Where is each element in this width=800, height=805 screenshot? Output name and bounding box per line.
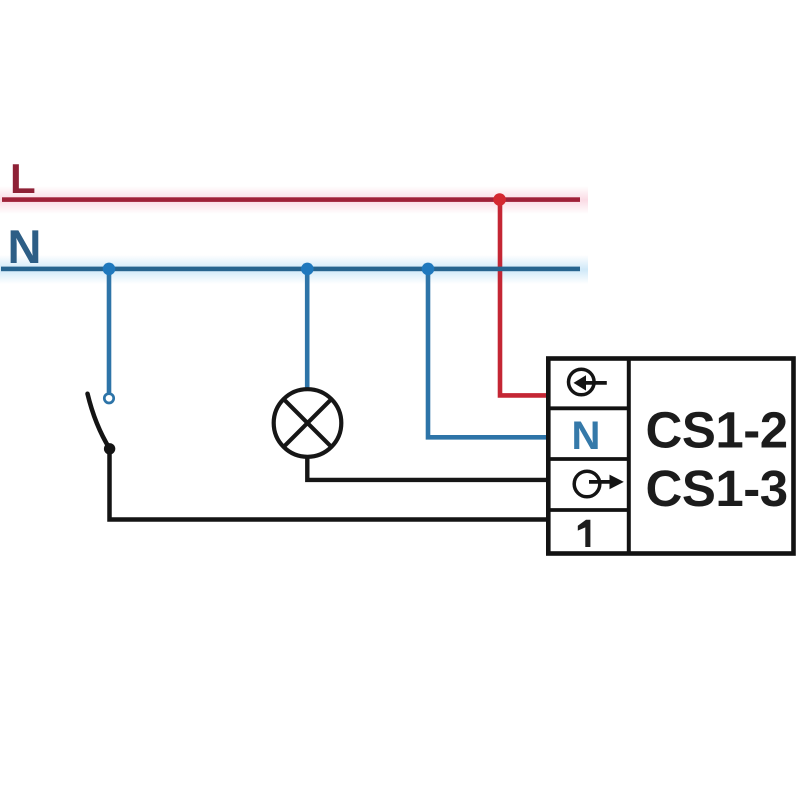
terminal icon: supply input (circle with left arrow) (569, 369, 607, 395)
halo around N bus (0, 255, 588, 284)
wire: blue elbow from N bus to terminal N (428, 269, 549, 437)
switch S pivot dot (104, 443, 115, 454)
svg-text:N: N (8, 220, 42, 273)
node: N junction at box drop (422, 263, 435, 276)
svg-text:L: L (10, 155, 36, 202)
switch S contact (open circle) (104, 394, 113, 403)
wire L bus (2, 197, 580, 202)
wire: switch to terminal 1 (110, 448, 550, 520)
node: N junction at switch drop (103, 263, 116, 276)
svg-text:N: N (572, 414, 601, 458)
wire: N bus to lamp (305, 269, 310, 388)
terminal icon: load output (circle with right arrow) (574, 471, 624, 497)
terminal cell divider 3 (547, 508, 629, 512)
svg-text:CS1-3: CS1-3 (646, 460, 788, 517)
relay module CS1-2 / CS1-3 body (548, 359, 793, 554)
terminal cell divider 2 (547, 457, 629, 461)
terminal label 1 (578, 520, 591, 547)
switch S lever (88, 394, 110, 449)
node: L junction at red drop (493, 193, 506, 206)
svg-text:CS1-2: CS1-2 (646, 402, 788, 459)
node: N junction at lamp drop (301, 263, 314, 276)
wire: lamp to terminal (output) (307, 456, 549, 480)
wire N bus (1, 267, 580, 272)
terminal column divider (627, 359, 631, 554)
lamp E (circle with cross) (274, 389, 342, 457)
terminal cell divider 1 (547, 406, 629, 410)
wire: N bus to switch (107, 269, 112, 393)
halo around L bus (0, 186, 588, 214)
wire: red drop from L to terminal (input) (500, 199, 549, 395)
